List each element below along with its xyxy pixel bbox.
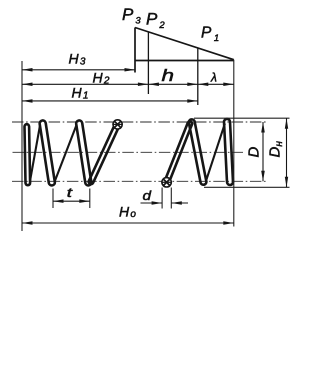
- load diagram: inner ordinate P1: [197, 48, 199, 105]
- DH top extension: [194, 117, 290, 119]
- wire back half-turn 5 (single line): [206, 124, 225, 182]
- wire front half-turn 1: [40, 120, 55, 185]
- svg-text:Ho: Ho: [119, 204, 136, 221]
- wire left end coil: [25, 124, 31, 185]
- load diagram: bottom edge: [135, 60, 234, 62]
- dimension H1: [22, 100, 198, 102]
- dimension t: [53, 200, 90, 202]
- load diagram: left vertical edge: [134, 28, 136, 73]
- svg-text:h: h: [162, 67, 175, 85]
- d right extension: [170, 188, 172, 209]
- svg-text:P3: P3: [122, 5, 141, 27]
- dimension H0: [22, 222, 234, 224]
- dimension H3: [22, 69, 135, 71]
- wire cross-section top cut (hatched): [113, 120, 122, 129]
- DH bottom extension: [204, 186, 290, 188]
- spring axis centerline (dash-dot): [13, 151, 244, 153]
- load diagram: sloped top edge: [135, 28, 234, 60]
- wire front half-turn 3: [189, 119, 207, 184]
- t right extension: [89, 189, 91, 209]
- svg-text:λ: λ: [210, 71, 217, 85]
- wire back half-turn 2 (single line): [54, 126, 76, 183]
- right extension line: [233, 60, 235, 227]
- dimension d: [141, 202, 163, 204]
- svg-text:H3: H3: [69, 51, 86, 68]
- svg-text:Dн: Dн: [267, 141, 286, 158]
- wire cross-section bottom cut (hatched): [162, 178, 171, 187]
- dimension D: [262, 122, 264, 181]
- svg-text:H2: H2: [93, 70, 110, 87]
- svg-text:d: d: [143, 188, 152, 203]
- wire back half-turn to top cut: [89, 122, 120, 184]
- wire back half-turn from bottom cut: [164, 121, 192, 184]
- svg-text:H1: H1: [72, 85, 89, 102]
- svg-text:P2: P2: [146, 10, 165, 32]
- dimension H2: [22, 83, 148, 85]
- svg-text:t: t: [67, 185, 74, 200]
- wire front half-turn 2: [76, 120, 91, 185]
- left extension line: [21, 61, 23, 231]
- load diagram: inner ordinate P2: [147, 32, 149, 94]
- bottom centerline (dash-dot): [12, 180, 268, 182]
- dimension lambda: [198, 83, 234, 85]
- dimension h: [148, 83, 197, 85]
- d left extension: [161, 188, 163, 209]
- svg-text:D: D: [246, 147, 263, 158]
- wire right end coil: [224, 119, 233, 185]
- dimension DH: [286, 118, 288, 187]
- wire back half-turn 1 (single line): [30, 125, 40, 182]
- t left extension: [52, 189, 54, 209]
- top centerline (dash-dot): [12, 121, 268, 123]
- svg-text:P1: P1: [201, 25, 219, 45]
